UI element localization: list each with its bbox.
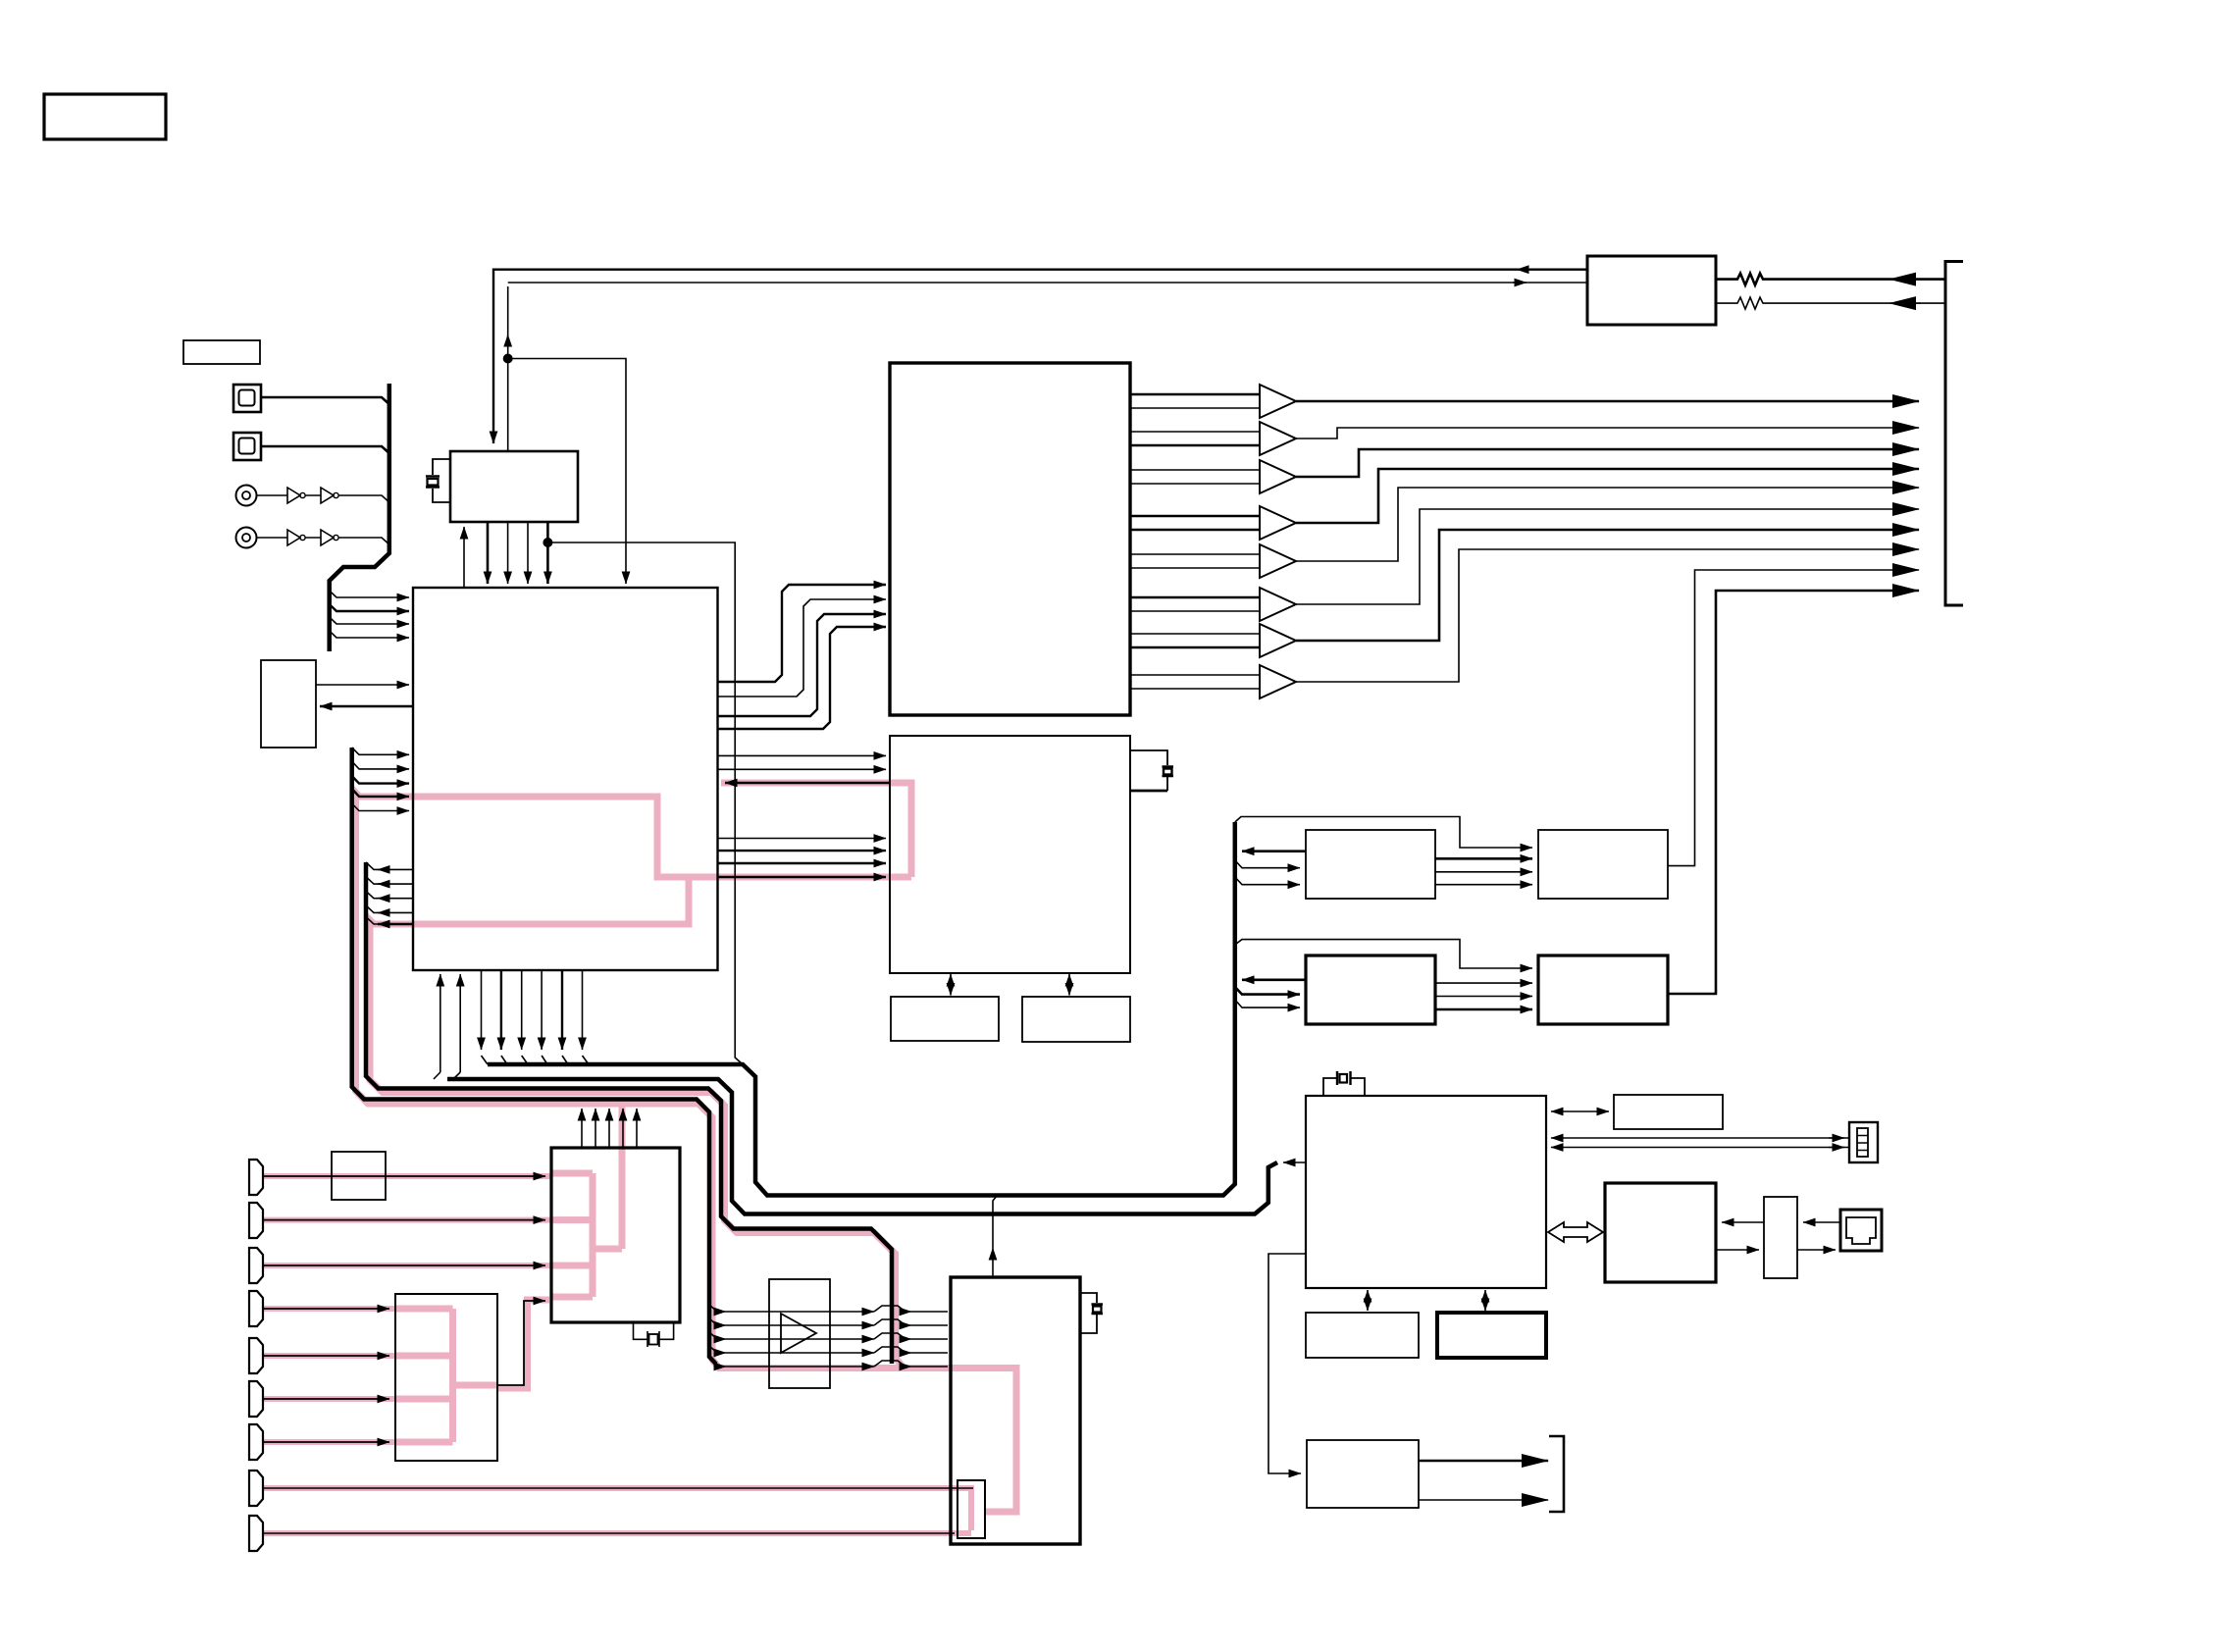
bus D stub to IC1 pin r3 <box>352 776 409 784</box>
bus column D (outer) with step-down to amp feed <box>352 748 716 1365</box>
big arrow left on R2 line <box>1889 302 1921 304</box>
block IC1 main signal processor <box>413 588 718 970</box>
wire RJ45 to tallbox (left arrow) <box>1803 1221 1840 1223</box>
block SDRAM B1 <box>1538 830 1668 899</box>
wire IC3 to memory S1 (double arrow) <box>950 974 952 996</box>
wire BigBoxA top tap 5 <box>636 1109 638 1148</box>
wire BB to bottom bracket line 1 (thick) <box>1419 1460 1548 1463</box>
block memory S1 below IC3 <box>891 997 999 1041</box>
wire pink under connector line c5 <box>263 1353 395 1359</box>
wire RCA J4 through buffers to input bus <box>257 538 389 544</box>
wire amp line 3 <box>709 1332 726 1339</box>
wire pink net: inner column branch (IC1 lower-left) down to center bus <box>370 920 902 1366</box>
wire c3 to BigBoxA <box>263 1265 545 1266</box>
wire IC1 bottom tap a4 <box>541 970 543 1050</box>
buffer V2 <box>1130 431 1260 433</box>
crystal X4 on IC4 top <box>1323 1078 1365 1096</box>
IC1 pin l3 to bus C <box>378 898 413 900</box>
crystal X3 on IC3 right <box>1130 750 1167 791</box>
wire IC1 to IC3 pin 5 <box>718 862 887 864</box>
wire top long 2 from clock box to TRB <box>508 283 1587 451</box>
wire IC4 to SB3 (double arrow) <box>1484 1290 1486 1311</box>
wire RCA J3 through buffers to input bus <box>257 495 389 502</box>
buffer V4 <box>1130 515 1260 518</box>
wire A2 to B2 d3 (thick) <box>1435 1008 1532 1011</box>
wire A2 to bus (left arrow, thick) <box>1242 978 1306 981</box>
connector stub c3 <box>249 1248 263 1283</box>
connector stub c5 <box>249 1338 263 1373</box>
wire grid bus tap row2 to B2 <box>1235 940 1532 968</box>
wire IC3 to IC1 (thick over pink) <box>725 782 890 785</box>
wire amp line 2 <box>709 1318 726 1325</box>
input bus thick vertical with jog <box>330 384 389 651</box>
wire c4 to BigBoxB <box>263 1308 389 1310</box>
arrow up on wire 2 vertical <box>507 335 509 345</box>
arrow on top wire 2 pointing right <box>1513 282 1526 284</box>
wire bus stub to IC1 pin 1 <box>330 591 409 597</box>
wire from junction to IC1 top pin <box>508 359 626 585</box>
connector stub c1 <box>249 1160 263 1195</box>
wire IC1 right staircase 1 to IC2 <box>718 585 887 682</box>
block IC6 front DSP (bottom center, thick) <box>951 1277 1080 1544</box>
wire amp line 1 from bus D to IC6 <box>709 1305 726 1312</box>
block IC5 network controller (thick) <box>1605 1183 1716 1282</box>
crystal X1 at clock box CB <box>433 459 450 502</box>
wire IC5 to tallbox (right arrow) <box>1716 1249 1759 1251</box>
block SDRAM B2 (thick) <box>1538 955 1668 1024</box>
wire IC1 to IC3 pin 3 <box>718 838 887 840</box>
wire amp line 4 <box>709 1346 726 1353</box>
hollow bus arrow between IC4 and IC5 <box>1548 1222 1603 1242</box>
connector stub c4 <box>249 1291 263 1326</box>
buffer inverter U1b <box>321 488 334 503</box>
wire BigBoxA top tap 2 <box>595 1109 596 1148</box>
bus A bottom (from IC1 bottom taps to grid riser) <box>488 822 1235 1196</box>
block BB bottom box <box>1307 1440 1419 1508</box>
wire A2 to B2 d1 <box>1435 982 1532 984</box>
wire BigBoxB output riser to BigBoxA <box>497 1301 545 1385</box>
block small box left of IC1 <box>261 660 316 748</box>
big arrow left on R1 line <box>1889 279 1921 281</box>
block IC2 video DAC (top center) <box>890 363 1130 715</box>
bus D stub to IC1 pin r1 <box>352 748 409 754</box>
wire bus to A1 in2 <box>1235 877 1300 885</box>
block SDRAM A1 <box>1306 830 1435 899</box>
wire bus to A2 in1 (thick) <box>1235 987 1300 995</box>
connector optical J1 <box>233 385 261 412</box>
wire pink under connector line c3 <box>263 1263 551 1268</box>
wire IC1 right staircase 4 to IC2 <box>718 627 887 729</box>
wire IC1 to IC3 pin 1 <box>718 754 887 756</box>
connector stub c9 <box>249 1516 263 1551</box>
wire BigBoxA top tap 3 <box>608 1109 610 1148</box>
wire pink under connector line c2 <box>263 1217 551 1223</box>
block SB2 below IC4 <box>1306 1313 1419 1358</box>
buffer V3 <box>1130 469 1260 471</box>
wire BB to bottom bracket line 2 <box>1419 1499 1548 1501</box>
block SB3 below IC4 (thick) <box>1437 1313 1546 1358</box>
block title box (top-left) <box>44 94 166 139</box>
wire pink: BigBoxB to BigBoxA riser <box>497 1300 549 1388</box>
resistor R2 on TRB right lower <box>1716 297 1945 309</box>
amp triangle A1 <box>781 1314 816 1353</box>
wire bus to A1 in1 <box>1235 860 1300 868</box>
wire SDRAM B1 output up to bracket arrow 9 <box>1668 570 1919 866</box>
wire IC1 bottom tap b1 (up arrow from bus B) <box>440 974 441 1072</box>
crystal X5 under BigBoxA <box>634 1322 674 1347</box>
connector 4pin header <box>1849 1122 1878 1162</box>
wire IC4 feed into bus B with left arrow <box>1283 1162 1306 1163</box>
wire IC1 right staircase 2 to IC2 <box>718 599 887 697</box>
bus D stub to IC1 pin r2 <box>352 761 409 769</box>
bus column C (inner) with step-down to hop bus <box>366 862 892 1364</box>
block audio-clock box CB with crystal <box>450 451 578 522</box>
IC1 pin l4 to bus C <box>378 911 413 913</box>
wire CB to IC1 pin b <box>507 522 509 584</box>
wire bus stub to IC1 pin 2 <box>330 604 409 611</box>
wire pink inside bottom DSP IC6 to inner box <box>951 1368 1016 1513</box>
wire IC1 to IC3 pin 2 <box>718 768 887 770</box>
connector stub c6 <box>249 1381 263 1417</box>
wire pink under connector line c7 <box>263 1439 395 1445</box>
block inner box inside IC6 <box>957 1480 985 1538</box>
buffer V1 with input pair and output <box>1130 393 1260 396</box>
bus D stub to IC1 pin r5 <box>352 803 409 811</box>
wire small box to IC1 <box>316 684 409 686</box>
wire IC1 bottom tap a5 <box>561 970 563 1050</box>
wire IC3 to memory S2 (double arrow) <box>1068 974 1070 996</box>
connector optical J2 <box>233 433 261 460</box>
buffer V5 <box>1130 553 1260 555</box>
connector RCA J4 <box>236 528 257 548</box>
block amp box with triangle <box>769 1279 830 1388</box>
node junction dot on wire2 vertical <box>503 354 513 364</box>
wire c6 to BigBoxB <box>263 1398 389 1400</box>
node junction dot on CB pin d <box>543 538 552 547</box>
block label box (left) <box>183 340 260 364</box>
wire pink under connector line c9 into IC6 inner box <box>263 1530 971 1536</box>
wire A1 to B1 d3 <box>1435 884 1532 886</box>
wire top long 1 from TRB to clock box <box>493 270 1587 443</box>
wire IC1 bottom tap a3 <box>521 970 523 1050</box>
buffer V8 <box>1130 674 1260 676</box>
block SB1 right of IC4 <box>1614 1095 1723 1129</box>
wire c7 to BigBoxB <box>263 1441 389 1443</box>
wire tallbox to RJ45 (right arrow) <box>1797 1249 1836 1251</box>
buffer V7 <box>1130 633 1260 635</box>
wire IC6 top tap up to bus A <box>992 1248 994 1277</box>
wire A1 to bus (left arrow, thick) <box>1242 850 1306 852</box>
wire IC1 bottom tap a1 (down arrow into bus A) <box>481 970 483 1050</box>
wire from CB junction right and down to bottom bus A <box>547 542 743 1064</box>
wire pink under connector line c6 <box>263 1396 395 1402</box>
wire amp line 5 (over pink) <box>716 1365 726 1368</box>
wire CB to IC1 pin d (thick) with junction <box>546 522 549 584</box>
connector RCA J3 <box>236 486 257 506</box>
wire c1 through filter box to BigBoxA <box>263 1175 545 1177</box>
wire c9 long to IC6 inner box <box>263 1532 955 1534</box>
wire pink under connector line c4 <box>263 1306 395 1312</box>
connector stub c2 <box>249 1203 263 1238</box>
buffer inverter U1a <box>287 488 300 503</box>
wire IC1 right staircase 3 to IC2 <box>718 614 887 716</box>
wire BigBoxA top tap 1 to bus D <box>581 1109 583 1148</box>
bracket bottom right <box>1549 1436 1564 1512</box>
IC1 pin l2 to bus C <box>378 883 413 885</box>
buffer inverter U1d <box>321 530 334 545</box>
wire CB bottom to IC1: pin up arrow <box>463 527 465 588</box>
wire IC1 to small box (thick) <box>320 705 413 708</box>
wire pink net: highlighted signal bus from IC1 left via outer column down to bottom DSP <box>356 793 952 1368</box>
buffer V6 <box>1130 596 1260 599</box>
wire c5 to BigBoxB <box>263 1355 389 1357</box>
block SDRAM A2 (thick) <box>1306 955 1435 1024</box>
wire c2 to BigBoxA <box>263 1219 545 1221</box>
wire bus to A2 in2 <box>1235 1000 1300 1007</box>
wire A1 to B1 d2 <box>1435 871 1532 873</box>
wire pink under connector line c8 into IC6 inner box <box>263 1488 971 1530</box>
wire BigBoxA top tap 4 (pink) <box>622 1109 624 1148</box>
resistor R1 on TRB right upper <box>1716 274 1945 285</box>
wire pink: BigBoxB internals merge <box>395 1309 497 1442</box>
block BigBoxB (bottom left) <box>395 1294 497 1461</box>
bus D stub to IC1 pin r4 (pink) <box>352 789 409 797</box>
wire pink: audio DAC BigBoxA internals and link to bus <box>551 1103 622 1297</box>
wire IC4 to 4pin connector upper <box>1551 1137 1849 1139</box>
wire c8 long to IC6 inner box <box>263 1487 973 1489</box>
wire pink under connector line c1 <box>263 1173 551 1179</box>
block BigBoxA audio DAC (bottom left, thick) <box>551 1148 680 1322</box>
wire A2 to B2 d2 <box>1435 996 1532 998</box>
bracket right side <box>1945 262 1963 606</box>
wire IC1 to IC3 pin 4 <box>718 850 887 852</box>
buffer inverter U1c <box>287 530 300 545</box>
crystal X6 on IC6 right <box>1080 1293 1097 1333</box>
wire CB to IC1 clock (thick) <box>487 522 490 584</box>
wire A1 to B1 d1 (thick) <box>1435 857 1532 860</box>
IC1 pin l1 to bus C <box>378 868 413 870</box>
block IC3 (center) with side crystal <box>890 736 1130 973</box>
wire IC4 to 4pin connector lower <box>1551 1147 1849 1149</box>
wire pink loop: IC1 interior to IC3 and back <box>413 783 911 924</box>
block small filter box on connector line c1 <box>332 1152 386 1200</box>
wire CB to IC1 pin c <box>527 522 529 584</box>
connector stub c7 <box>249 1424 263 1460</box>
wire bus stub to IC1 pin 4 <box>330 631 409 638</box>
wire bus stub to IC1 pin 3 <box>330 617 409 624</box>
bus B bottom (to IC4) <box>447 1079 1277 1214</box>
wire grid bus top tap to B1 <box>1235 817 1532 849</box>
connector RJ45 jack <box>1840 1210 1882 1251</box>
block top-right video buffer TRB <box>1587 256 1716 325</box>
wire IC1 to IC3 (thick over pink lower) <box>718 876 887 879</box>
block IC4 system controller (bottom right) <box>1306 1096 1546 1288</box>
wire optical J1 to input bus <box>261 397 389 404</box>
wire IC4 left down to bottom box BB <box>1268 1254 1306 1473</box>
block tall pulse transformer box <box>1764 1197 1797 1278</box>
block memory S2 below IC3 <box>1022 997 1130 1042</box>
IC1 pin l5 to bus C (pink) <box>378 923 413 925</box>
arrow on top wire 1 pointing left <box>1517 269 1530 271</box>
wire IC1 bottom tap a2 <box>500 970 502 1050</box>
wire optical J2 to input bus <box>261 446 389 453</box>
connector stub c8 <box>249 1471 263 1506</box>
wire IC4 to SB1 (double arrow) <box>1551 1110 1609 1112</box>
wire SDRAM B2 output up to bracket arrow 10 <box>1668 591 1919 994</box>
wire IC4 to SB2 (double arrow) <box>1367 1290 1369 1311</box>
wire tallbox to IC5 (left arrow) <box>1722 1221 1764 1223</box>
wire IC1 bottom tap a6 <box>582 970 584 1050</box>
wire IC1 bottom tap b2 <box>459 974 461 1072</box>
